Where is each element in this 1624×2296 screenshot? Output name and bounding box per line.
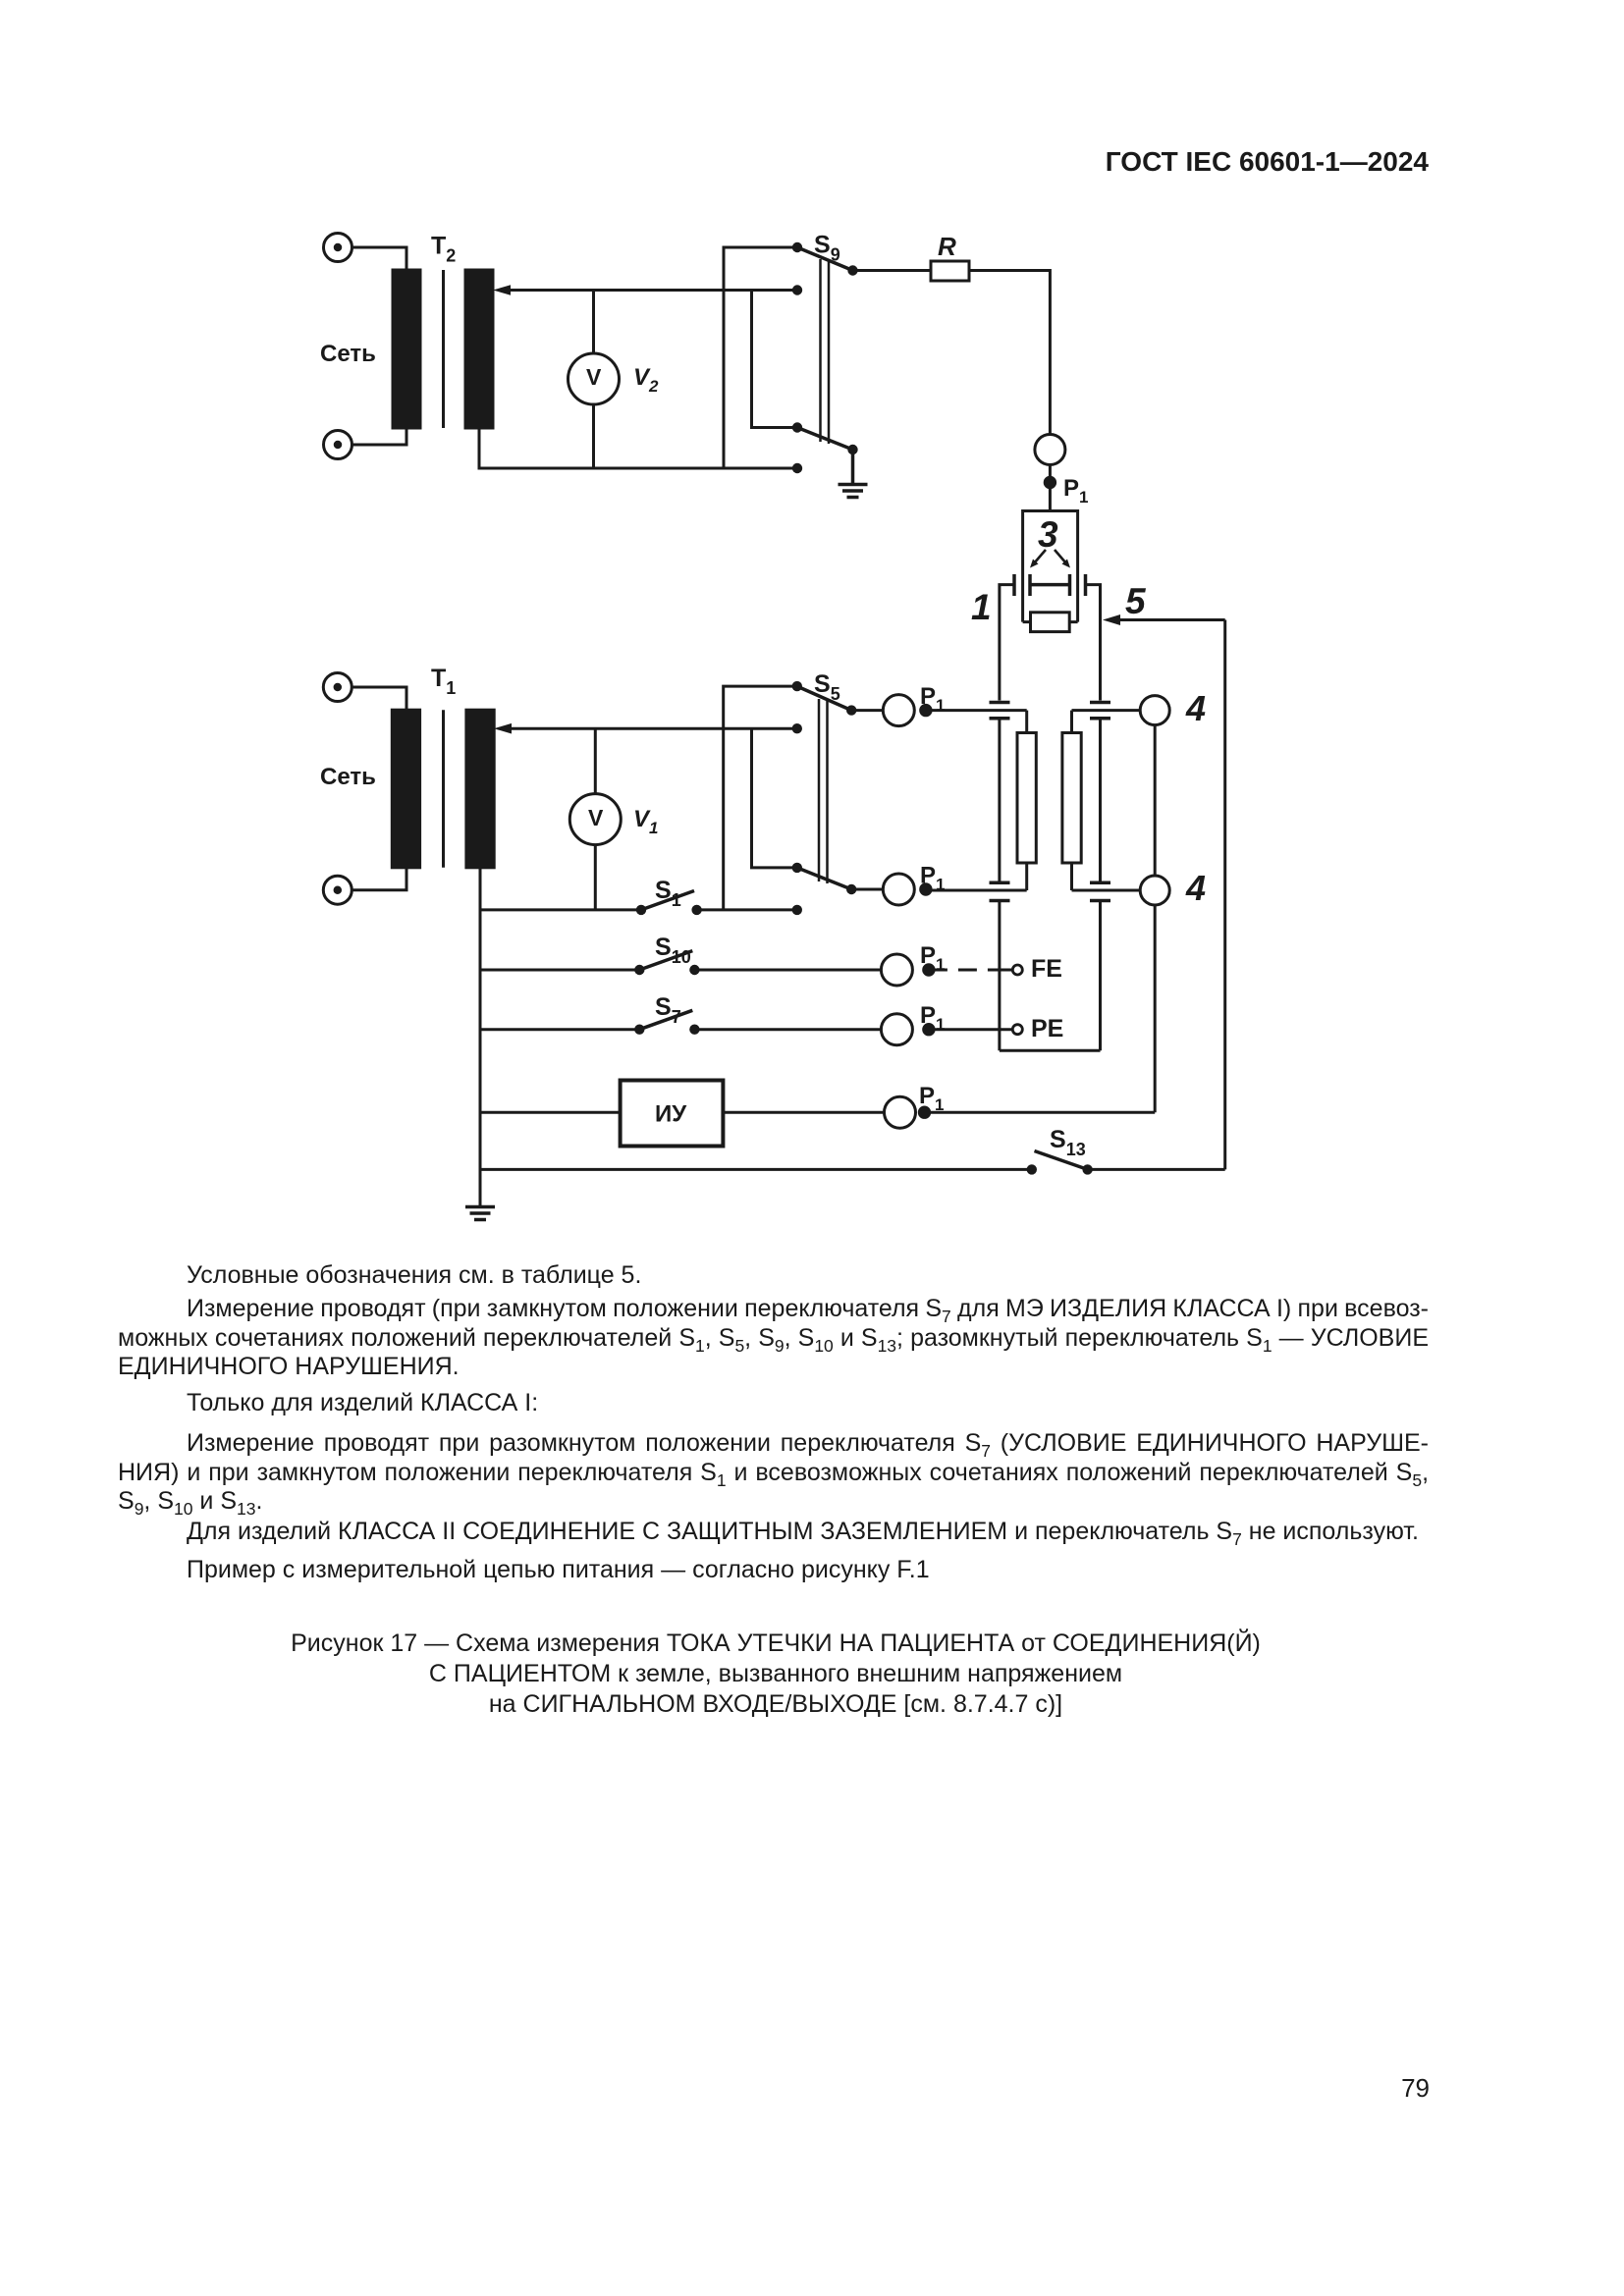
mains terminal J3 [323,673,352,702]
wire MD to P1 circle [723,1111,884,1114]
transformer T1 core [442,710,445,868]
transformer T1 secondary winding [466,710,494,868]
resistor R [931,261,969,281]
switch S7 wire left [480,1028,639,1031]
tap arrow into T2 secondary [510,289,797,292]
body right leg lower [1099,901,1102,1051]
mains terminal J4 [323,876,352,904]
transformer T1 primary winding [392,710,419,868]
svg-text:T2: T2 [431,233,456,266]
svg-text:5: 5 [1125,581,1147,621]
arrow from 3 to right connection [1055,550,1066,563]
wire S5 top throw feed [724,686,797,910]
svg-text:S13: S13 [1050,1126,1086,1159]
node P1 dot (lower) [921,884,931,894]
svg-text:PE: PE [1031,1015,1063,1042]
wire vertical link (top contact to bottom rail) [724,247,797,468]
wire S5 common to P1 circle (lower) [851,888,883,891]
measuring circle P1 (MD row) [885,1096,916,1128]
wire 4-chain down to MD output node [1154,905,1157,1112]
svg-text:T1: T1 [431,665,456,698]
wire S5 lower throw feed [752,728,797,868]
svg-text:V: V [588,805,604,830]
body legs bottom link [1000,1049,1101,1052]
node P1 dot (FE row) [924,965,934,975]
measuring circle P1 (FE row) [881,954,912,986]
leads of right resistor [1070,711,1073,890]
patient connection lead left [1000,585,1014,701]
node P1 dot (PE row) [924,1025,934,1035]
arrow from 3 to left connection [1034,550,1046,563]
terminal circle 4 (lower) [1140,876,1169,905]
PE terminal circle [1012,1025,1022,1035]
switch S5 pole 2 blade [797,868,851,889]
body left leg lower [998,901,1001,1051]
wire S13 to right drop [1088,1168,1225,1171]
wire right resistor to terminal 4 (top) [1072,709,1143,712]
svg-text:4: 4 [1185,688,1206,728]
transformer T2 core [442,270,445,428]
probe terminal circle (top P1) [1035,435,1065,465]
separable connector lower-right plates [1090,882,1110,900]
wire S9 common to R [853,269,932,272]
svg-text:Сеть: Сеть [320,341,376,367]
switch S10 wire left [480,969,639,972]
svg-text:4: 4 [1185,868,1206,908]
svg-text:3: 3 [1038,514,1058,555]
voltmeter V1 [569,728,621,910]
wire probe to applied part [1049,465,1052,511]
ground under S9 [839,450,868,498]
svg-text:1: 1 [971,587,992,627]
leads of left resistor [1025,711,1028,890]
FE terminal circle [1012,965,1022,975]
wire MD row to 4-chain riser [925,1111,1156,1114]
terminal circle 4 (upper) [1140,696,1169,725]
patient lead bar [1030,583,1070,587]
wire P1 to left resistor (bottom) [926,889,1027,892]
svg-text:P1: P1 [1063,475,1088,507]
separable connector lower-left plates [990,882,1010,900]
body left leg [998,719,1001,883]
wire S10 to P1 circle [694,969,881,972]
wire J2 to T2 primary bottom [352,424,407,445]
wire to MD box [480,1111,621,1114]
voltmeter V2 [568,291,620,469]
switch S13 blade [1035,1151,1088,1170]
body right leg [1099,719,1102,883]
wire T2 secondary bottom rail [479,428,797,468]
switch S10 blade [639,951,692,970]
switch S7 blade [639,1010,692,1029]
transformer T2 primary winding [393,270,420,428]
switch S5 coupling link [819,699,828,883]
switch S1 dots [636,905,702,915]
switch S1 wire left [480,908,641,911]
separable connector upper-right plates [1090,703,1110,719]
node FE dashed wire [929,969,1000,972]
wire vertical link (arrow rail to lower throw) [752,291,798,428]
FE tap stub [1000,969,1012,972]
wire right resistor to terminal 4 (bottom) [1072,889,1143,892]
wire P1 to left resistor (top) [926,709,1027,712]
switch S9 coupling link [821,259,830,444]
wire J1 to T2 primary top [352,247,407,272]
switch S9 pole 2 blade [797,428,853,451]
svg-text:ИУ: ИУ [655,1101,687,1128]
switch S5 pole 1 blade [797,686,851,711]
bottom rail to S13 [480,1168,1032,1171]
ground under T1 rail [465,1207,495,1220]
wire J4 to T1 primary bottom [352,866,406,890]
wire J3 to T1 primary top [352,687,406,712]
switch S10 dots [634,965,700,975]
applied-part box 3 outline [1023,511,1078,622]
measuring device box ИУ [621,1081,724,1147]
junction dots S5 [792,681,857,915]
wire S5 common to P1 circle (upper) [851,709,883,712]
measuring circle P1 (upper) [883,695,914,726]
measuring resistor right [1062,733,1081,864]
svg-text:Сеть: Сеть [320,764,376,790]
junction dots S9 [792,242,858,473]
separable connector upper-left plates [990,703,1010,719]
switch S1 blade [641,891,694,910]
mains terminal J2 (bottom-left of T2) [324,431,352,459]
arrow 5 (signal input/output) [1118,618,1225,621]
wire right drop to S13 [1223,620,1226,1170]
mains terminal J1 (top-left) [324,234,352,262]
node P1 dot (MD row) [919,1107,929,1117]
transformer T2 secondary winding [465,270,493,428]
measuring resistor left [1017,733,1036,864]
node P1 dot (upper) [921,705,931,715]
svg-text:R: R [938,232,956,261]
T1 secondary bottom lead down [479,868,482,1205]
node P1 (top) [1045,477,1055,487]
wire R to probe P1 [969,271,1050,435]
patient impedance resistor (in box 3) [1031,613,1070,632]
wire S7 to P1 circle [694,1028,881,1031]
tap arrow into T1 secondary [511,727,797,730]
switch S7 dots [634,1025,700,1035]
wire S1 to S5 bottom contact [697,908,797,911]
link between 4 terminals [1154,725,1157,876]
connector inner ticks [1030,574,1070,596]
switch S13 dots [1027,1164,1093,1174]
svg-text:V1: V1 [633,806,658,837]
measuring circle P1 (lower) [883,874,914,905]
svg-text:V2: V2 [633,364,659,396]
svg-text:V: V [586,364,602,390]
patient connection lead right [1086,585,1101,701]
node PE wire [929,1028,1012,1031]
connector outer ticks [1014,574,1086,596]
svg-text:FE: FE [1031,955,1062,983]
measuring circle P1 (PE row) [881,1014,912,1045]
switch S9 pole 1 blade [797,247,853,271]
